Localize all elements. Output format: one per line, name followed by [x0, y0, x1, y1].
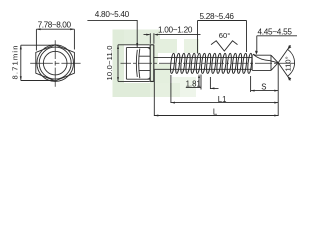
svg-text:8.71min: 8.71min: [11, 46, 20, 80]
head side view top edge: [126, 47, 150, 49]
head side hex corner lines: [139, 56, 150, 70]
arrow dim 4.80 leader: [136, 43, 138, 47]
dim 7.78~8.00 line and extensions: [36, 29, 74, 50]
drill point cone: [270, 55, 279, 70]
dim 5.28~5.46 leader: [198, 21, 247, 54]
arrow dim 1.81 up: [198, 74, 200, 78]
head corner chamfers: [148, 48, 151, 80]
dim 4.45~4.55 leader: [257, 36, 297, 53]
dimension texts: [11, 10, 293, 116]
washer flange side view: [150, 45, 154, 82]
svg-text:4.80~5.40: 4.80~5.40: [95, 10, 130, 19]
drill point flute: [252, 54, 271, 70]
dim 8.71min line and extensions: [21, 45, 54, 80]
head side view left face: [125, 48, 127, 80]
svg-text:1.00~1.20: 1.00~1.20: [158, 26, 193, 35]
dim 10.0~11.0 line and extensions: [118, 45, 150, 82]
svg-text:110°: 110°: [284, 56, 293, 71]
svg-text:L1: L1: [218, 95, 227, 104]
110 degree angle arc: [288, 49, 295, 76]
arrowheads: [20, 28, 292, 116]
watermark green blocks: [113, 30, 200, 98]
thread helix turns: [170, 53, 253, 73]
arrows dim L1: [171, 102, 175, 104]
svg-text:10.0~11.0: 10.0~11.0: [105, 46, 114, 81]
arrows dim 1.00: [146, 34, 150, 36]
front view horizontal centerline: [30, 62, 80, 64]
60 degree thread profile zigzag: [211, 41, 238, 51]
svg-text:60°: 60°: [219, 31, 230, 40]
dim L1 extension and line: [171, 75, 278, 103]
svg-text:1.81: 1.81: [186, 79, 201, 88]
hex head outline (front view): [36, 45, 75, 81]
dim 1.00~1.20 leader and arrows: [144, 33, 201, 44]
head side chamfer arcs: [136, 49, 139, 79]
svg-text:5.28~5.46: 5.28~5.46: [200, 12, 235, 21]
arrows dim 7.78: [36, 28, 40, 30]
dim S extensions and line: [251, 76, 279, 92]
svg-text:L: L: [213, 107, 218, 116]
arrow dim 4.45 leader: [255, 51, 258, 55]
head inner circle: [43, 51, 67, 75]
side view centerline: [121, 62, 296, 64]
shank lines and thread root lines: [154, 57, 252, 69]
head outer circle: [37, 45, 74, 82]
head side view bottom edge: [126, 78, 150, 80]
front view vertical centerline: [54, 40, 56, 87]
dim 1.81 stem and extensions: [186, 75, 219, 90]
arrows dim 8.71: [20, 45, 22, 49]
arrow dim 1.81 left: [210, 87, 214, 89]
arrows dim 10.0: [117, 45, 119, 49]
svg-text:S: S: [261, 82, 266, 91]
dim 4.80~5.40 leader: [87, 20, 137, 47]
dim L extensions and line: [154, 63, 278, 116]
arrows dim L: [154, 115, 158, 117]
arrows 110 arc: [288, 45, 292, 49]
svg-text:4.45~4.55: 4.45~4.55: [258, 27, 293, 36]
head chamfer circle: [39, 47, 71, 79]
arrows dim S: [251, 90, 255, 92]
svg-text:7.78~8.00: 7.78~8.00: [38, 20, 72, 29]
110 degree angle lines: [278, 45, 290, 80]
